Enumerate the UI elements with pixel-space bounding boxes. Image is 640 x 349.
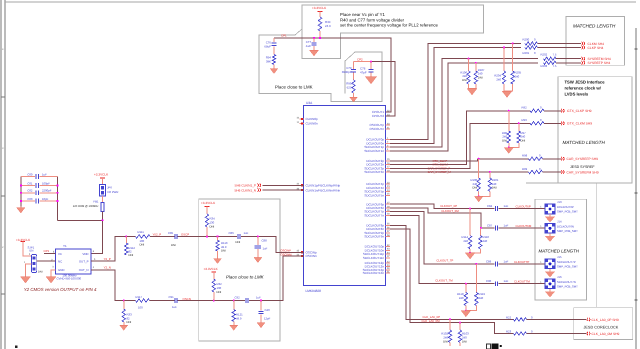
svg-text:CLK_LA0_0M SH9: CLK_LA0_0M SH9 [592,332,620,336]
svg-text:MATCHED LENGTH: MATCHED LENGTH [539,248,580,253]
svg-text:SMP_PCB_SMT: SMP_PCB_SMT [557,264,578,268]
svg-text:DNI: DNI [171,243,176,247]
svg-text:Y2_N: Y2_N [104,266,111,270]
svg-text:R99: R99 [522,167,528,171]
svg-text:7.5: 7.5 [553,52,557,56]
svg-text:CVHD-950-100.000: CVHD-950-100.000 [57,277,82,281]
svg-text:OSCN: OSCN [183,297,191,301]
svg-text:C88: C88 [262,238,268,242]
svg-text:NC: NC [58,260,62,264]
svg-text:DNI: DNI [210,224,215,228]
svg-text:24.9: 24.9 [325,24,331,28]
svg-text:C86: C86 [229,231,235,235]
svg-text:J16: J16 [557,275,562,279]
svg-text:.1uF: .1uF [305,44,311,48]
svg-text:CP1: CP1 [44,249,50,253]
svg-text:R98: R98 [522,154,528,158]
svg-text:Y2_P: Y2_P [104,257,111,261]
svg-text:DNI: DNI [472,186,477,190]
svg-text:3900pF: 3900pF [342,70,352,74]
svg-text:+3.3VCLK: +3.3VCLK [204,267,219,271]
svg-text:SDCLKOUT1n: SDCLKOUT1n [364,149,384,153]
svg-text:FB1: FB1 [93,199,99,203]
svg-text:68uF: 68uF [264,45,271,49]
svg-text:DNI: DNI [492,186,497,190]
svg-text:620: 620 [347,86,352,90]
svg-text:240: 240 [483,239,488,243]
svg-text:OSCOUTn: OSCOUTn [369,127,384,131]
svg-text:SDCLKOUT3n: SDCLKOUT3n [364,170,384,174]
svg-text:SH6 CLKIN1_P: SH6 CLKIN1_P [235,184,257,188]
svg-text:CLKIN1n/FBCLKINn/FINn: CLKIN1n/FBCLKINn/FINn [306,188,341,192]
svg-text:SMP_PCB_SMT: SMP_PCB_SMT [557,284,578,288]
svg-text:CLKP SH4: CLKP SH4 [588,46,604,50]
svg-text:JESD SYSREF: JESD SYSREF [570,165,595,169]
svg-text:CLKOUT_6P: CLKOUT_6P [440,204,457,208]
svg-text:49.9: 49.9 [236,316,242,320]
svg-text:R23: R23 [506,329,512,333]
svg-text:DNI: DNI [521,139,526,143]
svg-text:DNI: DNI [140,242,145,246]
svg-text:OSCINn: OSCINn [306,254,318,258]
svg-text:Y02_P: Y02_P [153,233,162,237]
svg-text:SYSREFP SH4: SYSREFP SH4 [588,61,611,65]
svg-text:39K: 39K [266,59,271,63]
svg-text:set the center frequency volta: set the center frequency voltage for PLL… [340,23,439,28]
svg-text:C85: C85 [168,231,174,235]
svg-text:C90: C90 [486,279,492,283]
svg-text:J15: J15 [557,255,562,259]
svg-text:VC: VC [58,252,62,256]
svg-text:OSCINM: OSCINM [280,252,292,256]
svg-text:SDCLKOUT9n: SDCLKOUT9n [364,235,384,239]
svg-text:12pF: 12pF [264,317,271,321]
svg-text:SMP_PCB_SMT: SMP_PCB_SMT [557,209,578,213]
svg-text:C60: C60 [27,172,33,176]
svg-text:1uF: 1uF [504,279,509,283]
svg-text:LMK04828: LMK04828 [306,289,322,293]
svg-text:J13: J13 [557,200,562,204]
svg-text:10pF: 10pF [42,197,49,201]
svg-text:SDCLKOUT13n: SDCLKOUT13n [363,271,385,275]
svg-text:C62: C62 [27,189,33,193]
svg-text:GND: GND [58,268,64,272]
svg-text:1uF: 1uF [256,296,261,300]
svg-text:LVDS levels: LVDS levels [565,92,589,97]
svg-text:DNI: DNI [478,76,483,80]
svg-text:OUT_N: OUT_N [79,268,89,272]
svg-text:GTX_CLKM SH9: GTX_CLKM SH9 [567,122,592,126]
svg-text:JESD CORECLOCK: JESD CORECLOCK [584,326,619,330]
svg-text:DNI: DNI [129,253,134,257]
svg-text:SH6 CLKIN1_N: SH6 CLKIN1_N [234,189,256,193]
svg-text:OUT_P: OUT_P [79,260,89,264]
svg-text:240: 240 [459,296,464,300]
svg-text:C92: C92 [235,296,241,300]
svg-text:U3A: U3A [306,101,313,105]
svg-text:MATCHED LENGTH: MATCHED LENGTH [563,140,606,145]
svg-text:240: 240 [496,77,501,81]
svg-text:R202: R202 [541,52,548,56]
svg-text:7.5: 7.5 [553,64,557,68]
svg-text:C40: C40 [265,308,271,312]
svg-text:CAR_SYSREFP SH9: CAR_SYSREFP SH9 [567,157,599,161]
svg-text:+3.3VCLK: +3.3VCLK [94,173,109,177]
svg-text:MATCHED LENGTH: MATCHED LENGTH [573,23,616,28]
svg-text:R92: R92 [522,106,528,110]
svg-text:Y1: Y1 [63,244,67,248]
svg-text:1uF: 1uF [42,172,47,176]
svg-text:C87: C87 [487,223,493,227]
svg-text:Place close to LMK: Place close to LMK [226,274,265,279]
svg-text:R93: R93 [522,118,528,122]
svg-text:240: 240 [515,74,520,78]
svg-text:C84: C84 [487,204,493,208]
svg-text:R203: R203 [541,64,548,68]
svg-text:1uF: 1uF [504,260,509,264]
svg-text:SDCLKOUT11n: SDCLKOUT11n [363,256,384,260]
svg-text:DNI: DNI [236,240,241,244]
svg-text:+3.3VCLK: +3.3VCLK [312,6,327,10]
svg-text:CLKOUT6M: CLKOUT6M [516,224,532,228]
svg-text:240: 240 [463,239,468,243]
svg-text:CLKOUT7P: CLKOUT7P [514,260,529,264]
svg-text:CLKOUT_7M: CLKOUT_7M [435,278,453,282]
svg-text:XO PWR: XO PWR [107,190,118,194]
svg-text:2200pF: 2200pF [42,189,52,193]
svg-text:+3.3VCLK: +3.3VCLK [201,201,216,205]
svg-text:R200: R200 [523,38,530,42]
svg-text:DNI: DNI [443,339,448,343]
svg-text:C91: C91 [169,295,175,299]
svg-text:CLKIN0n: CLKIN0n [306,122,319,126]
svg-text:CLK_LA0_0P SH9: CLK_LA0_0P SH9 [592,318,619,322]
svg-text:CLKOUT_7P: CLKOUT_7P [436,259,453,263]
svg-text:47pF: 47pF [360,71,367,75]
svg-text:Place close to LMK: Place close to LMK [275,85,313,90]
svg-text:240: 240 [479,296,484,300]
svg-text:DNI: DNI [502,139,507,143]
svg-text:CPOUT2: CPOUT2 [372,114,385,118]
svg-text:CLKOUT6P: CLKOUT6P [516,205,531,209]
svg-text:R117: R117 [136,295,143,299]
svg-text:1uF: 1uF [504,223,509,227]
svg-text:DNI: DNI [127,320,132,324]
svg-text:CLK_LA0_0M: CLK_LA0_0M [422,319,441,323]
svg-text:reference clock w/: reference clock w/ [565,86,602,91]
svg-text:DNI: DNI [462,339,467,343]
svg-text:R22: R22 [506,315,512,319]
svg-text:DNI: DNI [217,290,222,294]
svg-text:SMP_PCB_SMT: SMP_PCB_SMT [557,229,578,233]
svg-text:C63: C63 [27,197,33,201]
svg-text:1uF: 1uF [504,204,509,208]
svg-text:DNI: DNI [221,249,226,253]
svg-text:100pF: 100pF [42,181,50,185]
svg-text:J14: J14 [557,220,562,224]
svg-text:SDCLKOUT7n: SDCLKOUT7n [364,213,384,217]
svg-text:1uF: 1uF [244,231,249,235]
svg-text:DNI: DNI [38,270,43,273]
svg-text:1uF: 1uF [172,305,177,309]
svg-text:CP2: CP2 [357,58,363,62]
svg-text:C89: C89 [486,260,492,264]
svg-text:DNI: DNI [462,78,467,82]
svg-text:R111: R111 [138,230,145,234]
svg-text:CAR_SYSREFM SH9: CAR_SYSREFM SH9 [567,170,599,174]
svg-text:EN: EN [30,249,34,253]
svg-text:120 OHM @ 100MHz: 120 OHM @ 100MHz [73,205,99,208]
svg-text:100: 100 [138,305,143,309]
svg-text:Y2 CMOS version OUTPUT on PIN: Y2 CMOS version OUTPUT on PIN 4 [24,287,97,292]
svg-text:CLKIN1p/FBCLKINp/FINp: CLKIN1p/FBCLKINp/FINp [306,183,341,187]
svg-text:SDCLKOUT5n: SDCLKOUT5n [364,193,384,197]
svg-text:TSW JESD Interface: TSW JESD Interface [565,80,606,85]
svg-text:CLKOUT7M: CLKOUT7M [514,280,530,284]
svg-text:C61: C61 [27,181,33,185]
svg-text:CLKOUT_6M: CLKOUT_6M [441,209,459,213]
svg-text:R201: R201 [523,51,530,55]
svg-text:GTX_CLKP SH9: GTX_CLKP SH9 [567,109,592,113]
svg-text:CP1: CP1 [281,34,287,38]
svg-text:VDD: VDD [82,252,88,256]
svg-text:CLKIN0p: CLKIN0p [306,117,319,121]
svg-text:1uF: 1uF [263,246,268,250]
svg-text:OSCP: OSCP [181,233,189,237]
